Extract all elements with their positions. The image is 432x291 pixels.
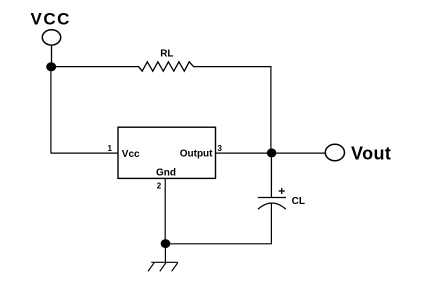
resistor RL	[139, 49, 194, 72]
svg-text:VCC: VCC	[31, 10, 71, 29]
svg-text:Vcc: Vcc	[122, 149, 140, 160]
node junction at VCC rail	[46, 62, 56, 71]
svg-text:1: 1	[108, 144, 113, 153]
node junction ground rail	[161, 239, 171, 248]
op-amp / regulator box U1	[118, 127, 216, 178]
wire output node to Vout terminal	[272, 152, 326, 154]
wire bottom rail	[166, 243, 272, 245]
svg-text:Vout: Vout	[351, 144, 391, 164]
wire top-right corner down to output node	[270, 66, 272, 153]
terminal Vout	[325, 144, 344, 161]
wire resistor to top-right corner	[194, 66, 272, 68]
wire left rail down	[50, 67, 52, 154]
wire pin 3 lead to output node	[216, 152, 272, 154]
svg-text:CL: CL	[292, 196, 305, 207]
curved bottom plate	[258, 203, 286, 209]
wire capacitor down to bottom rail	[270, 204, 272, 245]
svg-text:2: 2	[157, 182, 162, 191]
svg-text:RL: RL	[160, 49, 173, 60]
wire node to ground symbol	[164, 244, 166, 262]
wire pin 2 lead down	[164, 178, 166, 244]
wire VCC terminal to node	[51, 46, 53, 67]
svg-text:Gnd: Gnd	[156, 168, 176, 179]
capacitor CL (polarized)	[258, 188, 305, 209]
wire pin 1 lead	[51, 152, 118, 154]
wire output node down to capacitor	[270, 153, 272, 197]
top plate	[258, 197, 286, 199]
wire top rail left to resistor	[51, 66, 139, 68]
node junction output	[267, 148, 277, 157]
svg-text:Output: Output	[180, 148, 213, 159]
ground	[148, 262, 178, 271]
terminal VCC	[42, 30, 60, 45]
plus polarity mark	[279, 190, 285, 192]
svg-text:3: 3	[218, 144, 223, 153]
